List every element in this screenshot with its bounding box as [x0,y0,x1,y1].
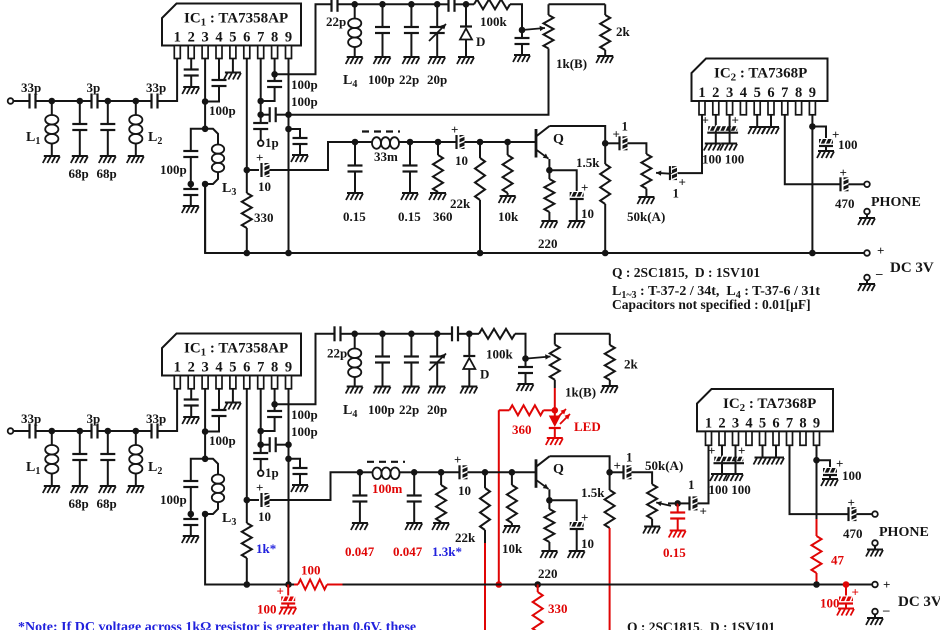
svg-text:100: 100 [842,468,862,483]
ground pin5 (mod) [224,389,241,410]
ground (pin9 cap) [291,155,308,162]
capacitor 470u series (mod) [843,495,872,541]
wiper arrow 50k (mod) [656,501,671,506]
svg-text:Q : 2SC1815, D : 1SV101: Q : 2SC1815, D : 1SV101 [627,620,775,630]
wire pin3 to tank (mod) [204,432,206,459]
svg-text:100m: 100m [372,481,403,496]
svg-text:100 100: 100 100 [702,152,744,167]
node diode (mod) [466,331,473,338]
ground pin5 (mod) [754,445,771,464]
ground phone (mod) [866,550,883,557]
svg-text:7: 7 [257,30,264,46]
svg-text:9: 9 [285,30,292,46]
capacitor 1p [253,115,279,150]
label 50k(A) (mod) [645,458,683,473]
inductor L3 (mod) [205,459,236,528]
capacitor 33p #2 (series) [136,80,166,109]
ground (100u pin9) [817,151,834,158]
wire tank to rail [204,184,206,253]
resistor 1k* (was 330) [242,500,276,585]
svg-text:1p: 1p [265,465,279,480]
svg-text:68p: 68p [97,166,117,181]
svg-text:68p: 68p [69,166,89,181]
capacitor 10u detector (mod) [441,452,485,498]
node B (mod) [77,428,84,435]
svg-text:50k(A): 50k(A) [645,458,683,473]
svg-text:7: 7 [786,415,793,431]
node pin7a (mod) [257,428,264,435]
svg-text:100p: 100p [209,433,236,448]
node tank bottom R (mod) [202,511,209,518]
node tank bottom R [202,181,209,188]
ground 100u red DC [837,609,854,616]
resistor 220 [538,170,558,251]
ground LED (red) [546,438,563,445]
capacitor 1u to IC2 (mod) [678,445,709,518]
ground 100u pin3 (mod) [726,474,743,481]
svg-text:220: 220 [538,236,558,251]
svg-text:PHONE: PHONE [879,525,929,540]
resistor 100k [466,0,510,29]
resistor 22k [450,142,485,253]
svg-text:22p: 22p [399,402,419,417]
potentiometer 1k(B) [544,4,588,71]
wire emitter [548,159,550,170]
wire 114 rail to pot bottom [289,49,549,115]
node filter mid (mod) [411,469,418,476]
capacitor 10u detector (series) [438,122,480,168]
node wiper 1kB (mod) [522,355,529,362]
svg-text:+: + [581,510,588,525]
svg-text:20p: 20p [427,402,447,417]
capacitor 100u pin3 (mod) [736,443,746,474]
ground diode (mod) [460,387,477,394]
node tank bottom L (mod) [188,511,195,518]
wiper arrow 1kB (mod) [526,354,551,359]
ground (L4) [346,57,363,64]
svg-text:PHONE: PHONE [871,195,921,210]
node wiper out [668,500,681,507]
node 330 rail (mod) [534,581,541,588]
svg-text:100: 100 [838,137,858,152]
svg-text:+: + [883,577,890,592]
input terminal J1 [8,98,30,104]
label DC 3V [890,260,934,276]
resistor 10k [498,142,519,224]
variable capacitor 20p [427,4,447,87]
svg-text:+: + [451,122,458,137]
svg-text:360: 360 [512,422,532,437]
inductor L2 [129,101,162,156]
ground (phone) [858,218,875,225]
svg-text:4: 4 [745,415,752,431]
svg-text:100p: 100p [209,103,236,118]
capacitor 0.01 tank (mod) [183,514,198,536]
node 360 top [435,139,442,146]
node D1 [133,98,140,105]
svg-text:100p: 100p [368,72,395,87]
potentiometer 50k(A) [627,154,665,224]
ground (tank bottom) [182,206,199,213]
ground 10u emitter (mod) [568,551,585,558]
svg-text:1: 1 [705,415,712,431]
svg-text:+: + [840,165,847,180]
ground (pin 2) [182,87,199,94]
svg-text:1k(B): 1k(B) [565,385,596,400]
ground (20p) [428,57,445,64]
svg-text:4: 4 [215,360,222,376]
svg-text:1p: 1p [265,135,279,150]
svg-text:3: 3 [732,415,739,431]
ground (68p #1) [71,156,88,163]
wire pin8 to top rail (mod) [275,334,335,405]
ground 1.3k [432,523,449,530]
transistor Q 2SC1815 [536,126,564,159]
svg-text:0.047: 0.047 [393,544,423,559]
wire pin 6 [246,59,248,170]
ground 100u pin9 (mod) [821,479,838,486]
capacitor 100u (red, under rail) [257,584,295,617]
wire [355,3,383,5]
wire pin7 out [785,115,841,185]
choke 33m [355,132,410,165]
svg-text:8: 8 [271,30,278,46]
capacitor 1u output (mod) [610,450,653,485]
svg-text:10: 10 [458,483,471,498]
node red rail [496,581,503,588]
svg-text:1: 1 [698,85,705,101]
svg-text:22k: 22k [450,196,471,211]
ground 100p osc (mod) [374,387,391,394]
svg-text:3: 3 [726,85,733,101]
ground (360) [429,193,446,200]
svg-text:50k(A): 50k(A) [627,209,665,224]
resistor 22k (mod) [455,472,490,545]
supply rail [205,184,864,253]
svg-text:22k: 22k [455,530,476,545]
terminal PHONE - [864,209,870,218]
svg-text:100p: 100p [291,407,318,422]
svg-text:33p: 33p [146,411,166,426]
node 22k rail [477,250,484,257]
svg-text:3: 3 [201,30,208,46]
svg-text:1k*: 1k* [256,541,276,556]
svg-text:+: + [732,113,739,128]
svg-text:1.5k: 1.5k [581,485,605,500]
svg-text:100k: 100k [486,347,514,362]
capacitor 0.01 (tank bottom) [183,184,198,206]
node pin7b (mod) [257,441,264,448]
node diode [463,1,470,8]
node 22k [477,139,484,146]
ground 50k pot (mod) [643,527,660,534]
svg-text:68p: 68p [97,496,117,511]
svg-text:+: + [708,443,715,458]
resistor 100 (red, rail) [294,563,343,590]
node C [105,98,112,105]
terminal DC - (mod) [872,602,890,618]
ground 100u pin2 (mod) [710,474,727,481]
node pin6 (mod) [244,497,251,504]
capacitor 100p pin8 (mod) [261,404,318,431]
ground (10k) [499,196,516,203]
svg-text:22p: 22p [399,72,419,87]
inductor L1 (mod) [26,431,58,486]
terminal PHONE + [864,182,921,211]
wire red 22k down [484,543,486,630]
op-amp IC2 TA7368P [692,59,828,115]
svg-text:1: 1 [622,119,629,134]
svg-text:2: 2 [188,360,195,376]
wire pin 9 [288,59,290,129]
capacitor 0.01 pin2 (mod) [184,389,199,417]
svg-text:2: 2 [712,85,719,101]
svg-text:9: 9 [813,415,820,431]
resistor 100k (mod) [469,329,515,362]
capacitor 10u series (mod) [247,472,360,524]
svg-text:10: 10 [581,536,594,551]
wire pin 7 (mod) [260,389,262,445]
diode D 1SV101 (mod) [463,334,489,387]
capacitor 3p (mod) [80,411,108,439]
node 20p top [434,1,441,8]
svg-text:100p: 100p [291,77,318,92]
svg-text:+: + [852,585,859,600]
inductor L3 [205,129,236,198]
terminal PHONE - (mod) [872,540,878,549]
node L4 [351,1,358,8]
ground 68p#1 (mod) [71,486,88,493]
node pin6 [244,167,251,174]
svg-text:100p: 100p [291,94,318,109]
resistor 47 (red) [812,519,845,585]
terminal PHONE + (mod) [872,511,929,540]
ground 20p (mod) [428,387,445,394]
svg-text:5: 5 [229,30,236,46]
svg-text:1: 1 [673,186,680,201]
inductor L4 [343,4,361,90]
node pin3 [202,98,236,118]
wire 100k to wiper (mod) [515,334,526,359]
node filter mid [407,139,414,146]
label DC 3V (mod) [898,594,940,610]
ground (50k pot) [637,197,654,204]
svg-text:20p: 20p [427,72,447,87]
resistor 1.5k (mod) [581,472,615,528]
terminal DC + [864,243,884,258]
wire pin9 to rail (mod) [288,459,290,585]
svg-text:220: 220 [538,566,558,581]
svg-text:22p: 22p [326,14,346,29]
wire pin 8 [274,59,276,75]
svg-text:0.047: 0.047 [345,544,375,559]
capacitor 33p (input series) [21,80,52,109]
inductor L2 (mod) [129,431,162,486]
node pin7b [257,111,264,118]
svg-text:+: + [877,243,884,258]
node A (mod) [49,428,56,435]
node pin9b [285,126,292,133]
op-amp IC2 TA7368P (mod) [697,389,833,445]
wire [411,333,437,335]
capacitor 100p tank (mod) [160,459,205,514]
svg-text:33p: 33p [146,80,166,95]
svg-text:–: – [875,266,883,281]
capacitor 100p (tank) [160,129,205,184]
svg-text:330: 330 [548,601,568,616]
node pin9 rail [285,250,292,257]
wire [383,333,412,335]
capacitor 0.01 pin9 (mod) [289,459,308,485]
capacitor 10u (series) [247,142,355,194]
wire [52,430,80,432]
svg-text:IC1 : TA7358AP: IC1 : TA7358AP [184,341,288,359]
node emitter (mod) [546,497,553,504]
capacitor 1u output (series) [605,119,646,155]
capacitor 100p (osc) [368,4,395,87]
capacitor 100u (red, DC) [820,581,859,610]
node collector (mod) [606,469,613,476]
capacitor 0.15 #1 [343,142,366,224]
svg-text:47: 47 [831,553,845,568]
resistor 220 (mod) [538,500,558,581]
node filter in (mod) [357,469,364,476]
node pin9a [285,111,292,118]
node 22p top [408,1,415,8]
svg-text:DC 3V: DC 3V [898,594,940,610]
svg-text:0.15: 0.15 [343,209,366,224]
node pin7a [257,98,264,105]
svg-text:33m: 33m [374,149,398,164]
svg-text:33p: 33p [21,80,41,95]
svg-text:5: 5 [229,360,236,376]
capacitor 10u emitter [549,170,594,221]
wire pin 3 (mod) [204,389,206,432]
node 20p top (mod) [434,331,441,338]
node pin8 [271,71,278,78]
wire pot top to 2k [549,3,606,5]
svg-text:+: + [848,495,855,510]
resistor 1.5k [576,143,610,253]
ground (68p #2) [99,156,116,163]
node collector [602,140,609,147]
svg-text:10: 10 [258,179,271,194]
node 10k (mod) [509,469,516,476]
capacitor 100u pin2 (mod) [708,443,744,474]
capacitor 100p (series at 114) [261,94,318,122]
wire pin9 IC2 (mod) [816,445,818,519]
ground (10u emitter) [568,221,585,228]
node tank top (mod) [202,456,209,463]
svg-text:10k: 10k [502,541,523,556]
node pin9 IC2 (mod) [813,457,820,464]
ground (pin5) [748,115,765,134]
ground DC- (mod) [866,618,883,625]
ground 22p osc (mod) [402,387,419,394]
node 100p top [379,1,386,8]
node B [77,98,84,105]
svg-text:100k: 100k [480,14,508,29]
capacitor 22p series top (mod) [327,326,355,360]
ground 220 (mod) [540,551,557,558]
ground 68p#2 (mod) [99,486,116,493]
svg-text:100p: 100p [291,424,318,439]
resistor 2k (mod) [605,334,639,386]
potentiometer 50k(A) (mod) [647,484,657,526]
ground AGC (mod) [517,384,534,391]
svg-text:100p: 100p [160,162,187,177]
op-amp IC1 TA7358AP [162,4,301,59]
svg-text:9: 9 [809,85,816,101]
svg-text:470: 470 [843,526,863,541]
svg-text:IC2 : TA7368P: IC2 : TA7368P [723,396,816,414]
resistor 360 [433,142,453,224]
svg-text:100 100: 100 100 [709,482,751,497]
node pin8 (mod) [271,401,278,408]
node C (mod) [105,428,112,435]
ground 2k (mod) [601,386,618,393]
node 10k [504,139,511,146]
svg-text:1.3k*: 1.3k* [432,544,462,559]
node L4 (mod) [351,331,358,338]
svg-text:+: + [738,443,745,458]
node 22p top (mod) [408,331,415,338]
wire pot to 2k (mod) [555,333,610,335]
capacitor 1u to IC2 (series) [670,115,702,201]
svg-text:+: + [613,127,620,142]
svg-text:100p: 100p [160,492,187,507]
svg-text:Capacitors not specified : 0.0: Capacitors not specified : 0.01[µF] [612,297,811,312]
svg-text:5: 5 [759,415,766,431]
svg-text:7: 7 [257,360,264,376]
node LED [552,407,559,414]
svg-text:1k(B): 1k(B) [556,56,587,71]
ground (L1) [43,156,60,163]
capacitor 1p (mod) [253,445,279,480]
capacitor 68p #2 (mod) [97,431,117,511]
capacitor 68p #1 [69,101,89,181]
svg-text:+: + [256,480,263,495]
svg-text:+: + [581,180,588,195]
input terminal J1 (mod) [8,428,30,434]
ground (DC-) [858,284,875,291]
svg-text:5: 5 [754,85,761,101]
svg-text:8: 8 [795,85,802,101]
inductor L1 [26,101,58,156]
svg-text:+: + [454,452,461,467]
svg-text:+: + [700,504,707,519]
wire pin8 to top rail [275,4,332,74]
svg-text:2: 2 [718,415,725,431]
svg-text:100: 100 [820,596,840,611]
ground pin6 (mod) [767,445,784,464]
svg-text:10: 10 [581,206,594,221]
capacitor 22p (osc) [399,4,419,87]
potentiometer 1k(B) (mod) [550,334,596,400]
node tank top [202,126,209,133]
capacitor 22p osc (mod) [399,334,419,417]
ground 0.047#1 [351,523,368,530]
resistor 330 [242,170,274,253]
resistor 2k [600,4,630,56]
capacitor 33p #2 (mod) [136,411,166,439]
svg-text:+: + [614,458,621,473]
capacitor 100u (pin2) [702,113,739,144]
resistor 1.3k* (was 360) [432,472,462,559]
wire pot bottom red [554,388,556,410]
resistor 360 (red) [499,405,555,437]
capacitor 0.01 (pin 2) [184,59,199,87]
